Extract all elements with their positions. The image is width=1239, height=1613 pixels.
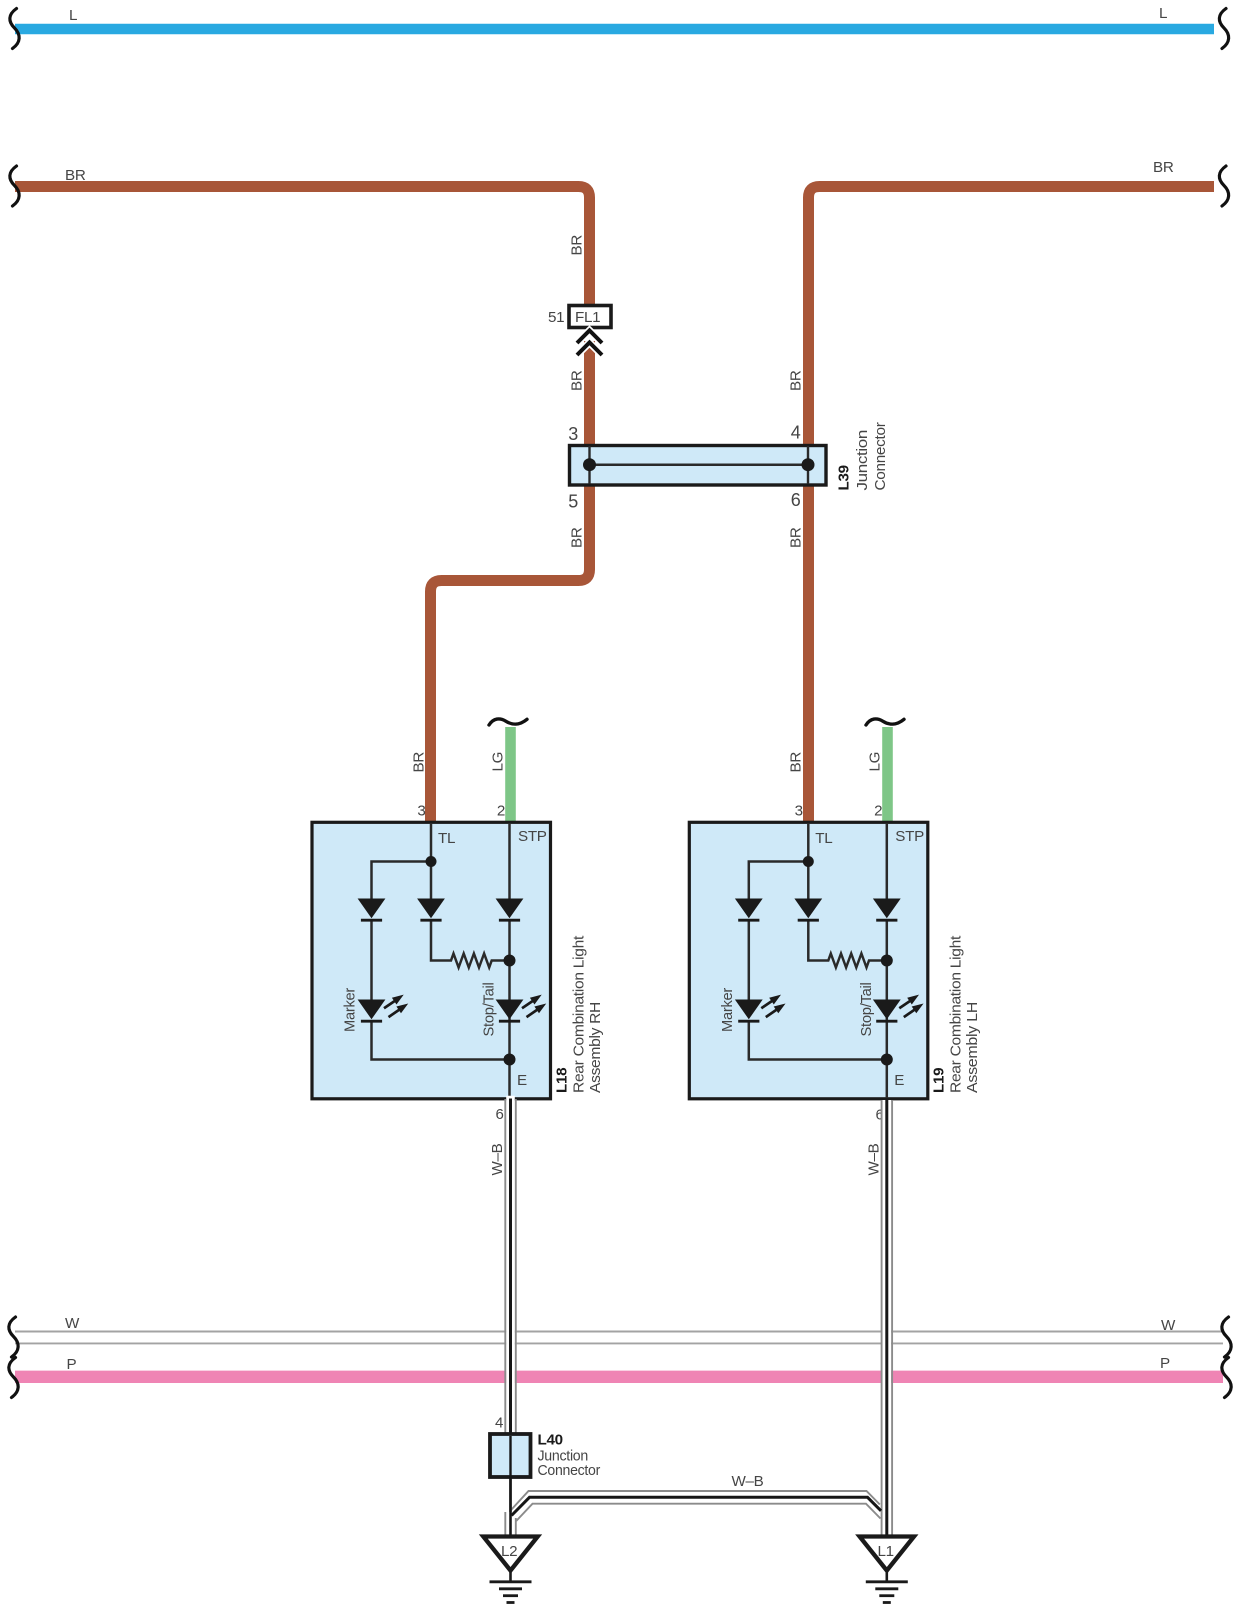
svg-text:2: 2	[497, 803, 505, 820]
svg-text:LG: LG	[490, 752, 507, 772]
svg-text:W–B: W–B	[866, 1143, 883, 1175]
svg-text:3: 3	[795, 803, 803, 820]
svg-text:W–B: W–B	[732, 1473, 764, 1490]
svg-text:Connector: Connector	[538, 1462, 601, 1479]
svg-text:Assembly RH: Assembly RH	[587, 1002, 604, 1093]
svg-text:L40: L40	[538, 1432, 563, 1449]
svg-text:BR: BR	[788, 370, 805, 391]
svg-text:L18: L18	[554, 1068, 571, 1093]
svg-text:Rear Combination Light: Rear Combination Light	[948, 935, 965, 1093]
svg-text:3: 3	[568, 424, 578, 444]
svg-text:2: 2	[874, 803, 882, 820]
svg-text:3: 3	[417, 803, 425, 820]
svg-text:P: P	[1160, 1355, 1170, 1372]
svg-text:W: W	[1161, 1317, 1176, 1334]
svg-text:BR: BR	[788, 752, 805, 773]
svg-text:Assembly LH: Assembly LH	[964, 1002, 981, 1093]
svg-text:BR: BR	[569, 370, 586, 391]
svg-text:BR: BR	[569, 527, 586, 548]
svg-text:LG: LG	[867, 752, 884, 772]
svg-text:L2: L2	[501, 1543, 517, 1560]
svg-text:Rear Combination Light: Rear Combination Light	[571, 935, 588, 1093]
svg-text:51: 51	[548, 309, 564, 326]
svg-text:L: L	[1159, 5, 1167, 22]
svg-text:BR: BR	[65, 167, 86, 184]
svg-text:L1: L1	[878, 1543, 894, 1560]
svg-text:6: 6	[791, 490, 801, 510]
svg-text:6: 6	[495, 1106, 503, 1123]
svg-text:4: 4	[495, 1415, 503, 1432]
svg-text:BR: BR	[1153, 159, 1174, 176]
svg-text:W: W	[65, 1315, 80, 1332]
svg-text:BR: BR	[569, 235, 586, 256]
svg-text:W–B: W–B	[489, 1143, 506, 1175]
svg-text:Connector: Connector	[872, 422, 889, 490]
svg-text:BR: BR	[411, 752, 428, 773]
svg-text:4: 4	[791, 423, 801, 443]
svg-text:L39: L39	[836, 465, 853, 490]
svg-text:Junction: Junction	[854, 430, 871, 491]
svg-text:5: 5	[568, 492, 578, 512]
svg-text:BR: BR	[788, 527, 805, 548]
svg-text:P: P	[67, 1356, 77, 1373]
svg-text:L: L	[69, 7, 77, 24]
svg-text:FL1: FL1	[575, 309, 600, 326]
svg-text:L19: L19	[931, 1068, 948, 1093]
